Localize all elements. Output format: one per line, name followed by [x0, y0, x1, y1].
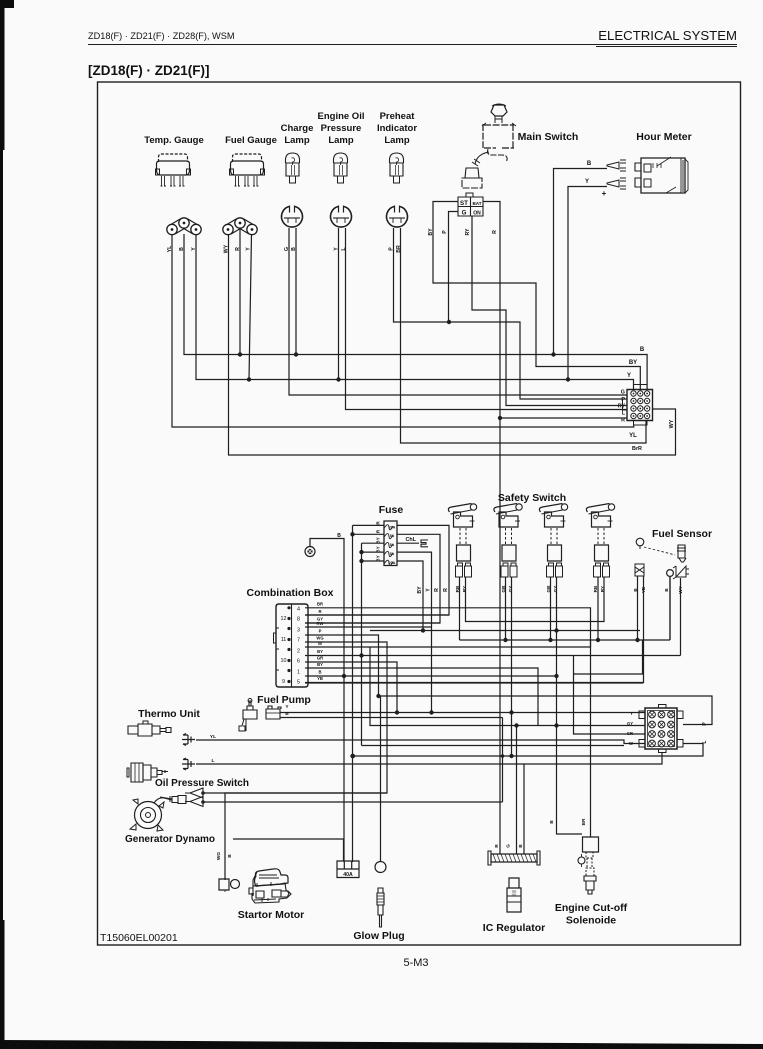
svg-text:WG: WG [216, 852, 222, 861]
svg-text:YL: YL [629, 433, 637, 439]
charge lamp bulb [286, 153, 300, 163]
svg-text:RY: RY [462, 586, 467, 592]
svg-text:GY: GY [553, 586, 558, 593]
svg-text:YL: YL [210, 734, 216, 740]
svg-text:9: 9 [282, 679, 285, 685]
comb wire W [305, 641, 591, 648]
svg-text:Y: Y [426, 588, 432, 592]
svg-text:BY: BY [417, 586, 423, 594]
fuse junction dots [350, 532, 354, 536]
fuse input R wires [353, 525, 385, 862]
svg-text:Fuse: Fuse [379, 504, 404, 516]
hour meter bullet connector Y [607, 178, 626, 189]
svg-text:Fuel Pump: Fuel Pump [257, 694, 311, 706]
comb wire BY2 [305, 668, 538, 726]
svg-text:5: 5 [297, 680, 300, 686]
svg-text:40A: 40A [343, 872, 353, 878]
safety switch 1 [448, 504, 471, 513]
oil fork [182, 758, 195, 770]
svg-text:BrR: BrR [632, 446, 642, 452]
temp gauge elbow connector [170, 219, 198, 235]
wire fuel WY / WY-line [229, 234, 676, 455]
wire oil L IC branch [523, 764, 525, 854]
wire charge G [289, 228, 627, 395]
wire x516 to IC [516, 726, 518, 855]
svg-text:L: L [212, 758, 215, 764]
bus y630 dots [421, 628, 425, 632]
bus y640 B-net [460, 577, 671, 640]
svg-text:B: B [549, 820, 555, 824]
hour meter bullet connector B [607, 160, 626, 171]
scan edge left strip [0, 0, 3, 1049]
svg-text:Fuel Sensor: Fuel Sensor [652, 528, 712, 540]
preheat lamp socket [387, 207, 408, 228]
svg-text:Glow Plug: Glow Plug [353, 930, 404, 942]
bus y839 [233, 839, 344, 861]
preheat lamp bulb [390, 153, 404, 163]
comb wire R [305, 614, 449, 616]
svg-text:R: R [492, 230, 498, 234]
safety sw2 wires [506, 577, 512, 757]
fuse input BY wires [362, 543, 385, 745]
svg-text:Hour Meter: Hour Meter [636, 131, 691, 143]
comb wire GY [305, 622, 440, 624]
safety sw4 left wire [597, 577, 599, 640]
wire P net right [379, 696, 713, 725]
svg-text:20A: 20A [389, 525, 396, 529]
safety sw3 wires [551, 577, 583, 834]
connector C2 12-pin [645, 708, 677, 749]
glow plug wire [380, 696, 382, 861]
svg-text:[ZD18(F) · ZD21(F)]: [ZD18(F) · ZD21(F)] [88, 63, 210, 78]
svg-text:P: P [621, 397, 625, 403]
40A fuse box [337, 861, 359, 878]
B screw terminal [305, 547, 315, 557]
svg-text:Temp. Gauge: Temp. Gauge [144, 135, 203, 146]
combination box [276, 604, 308, 687]
comb wire YB [305, 682, 644, 684]
comb wire BY1 [305, 655, 681, 657]
svg-text:2: 2 [297, 649, 300, 655]
wire main switch BY [433, 202, 640, 390]
svg-text:Solenoide: Solenoide [566, 915, 616, 927]
wire charge B [295, 228, 297, 355]
svg-text:20A: 20A [389, 561, 396, 565]
wire y756 R net [353, 744, 703, 757]
svg-text:Combination Box: Combination Box [247, 587, 334, 599]
svg-text:▒: ▒ [512, 890, 517, 897]
svg-text:Lamp: Lamp [284, 135, 310, 146]
bus y640 dots [503, 638, 507, 642]
hour meter symbol [641, 158, 685, 193]
svg-text:Fuel Gauge: Fuel Gauge [225, 135, 277, 146]
svg-text:Lamp: Lamp [384, 135, 410, 146]
fuse block [384, 521, 397, 566]
svg-text:B: B [640, 347, 645, 353]
diagram frame [98, 82, 741, 945]
svg-text:Y: Y [627, 373, 631, 379]
wire thermo YL long [196, 740, 645, 744]
fuse out c3 CHL [397, 542, 419, 544]
svg-text:3: 3 [297, 628, 300, 634]
svg-text:Y: Y [246, 247, 252, 251]
svg-text:GR: GR [317, 656, 323, 661]
svg-text:WY: WY [669, 419, 675, 428]
glow plug symbol [375, 862, 386, 873]
svg-text:GR: GR [627, 731, 633, 736]
svg-text:YB: YB [317, 676, 323, 681]
svg-text:11: 11 [281, 637, 287, 643]
svg-text:GY: GY [627, 721, 633, 726]
wire B net x344 [310, 539, 344, 863]
svg-text:R: R [318, 609, 321, 614]
svg-text:T15060EL00201: T15060EL00201 [100, 932, 178, 944]
fuel sensor wires [638, 576, 681, 683]
svg-text:WG: WG [316, 636, 323, 641]
svg-text:B: B [227, 854, 233, 858]
svg-text:BY: BY [317, 662, 323, 667]
fuel gauge elbow connector [226, 219, 254, 235]
svg-text:B: B [318, 670, 321, 675]
svg-text:BY: BY [629, 360, 637, 366]
thermo unit symbol [128, 724, 171, 736]
svg-text:R: R [434, 588, 440, 592]
fuse out c5 [397, 561, 423, 631]
svg-text:Charge: Charge [281, 123, 314, 134]
comb wire GR [305, 662, 397, 713]
temp gauge symbol [159, 154, 188, 162]
fuel sensor wire YB line [305, 682, 644, 684]
dots y756 [509, 754, 513, 758]
fuel gauge symbol [233, 154, 262, 162]
svg-text:G: G [462, 210, 467, 217]
svg-text:P: P [442, 230, 448, 234]
svg-text:BR: BR [581, 818, 587, 825]
svg-text:5A: 5A [390, 534, 395, 538]
svg-text:B: B [587, 161, 592, 167]
svg-text:Safety Switch: Safety Switch [498, 492, 566, 504]
fuse out c2 [305, 534, 440, 623]
wire preheat P [394, 228, 628, 399]
wire preheat BR [401, 228, 647, 443]
wire main switch R [483, 202, 500, 855]
svg-text:P: P [319, 629, 322, 634]
IC regulator symbol [491, 854, 537, 862]
fuse out c1 [305, 525, 449, 615]
wire hour meter Y [568, 187, 607, 380]
svg-text:G: G [506, 844, 511, 848]
svg-text:ELECTRICAL SYSTEM: ELECTRICAL SYSTEM [598, 28, 737, 43]
comb wire RW [305, 626, 432, 628]
svg-text:ZD18(F) · ZD21(F) · ZD28(F), W: ZD18(F) · ZD21(F) · ZD28(F), WSM [88, 31, 234, 41]
generator terminal box [219, 879, 229, 890]
svg-text:BAT: BAT [472, 201, 481, 206]
oil lamp socket [331, 207, 352, 228]
fuel sensor fork [673, 566, 689, 579]
svg-text:Startor Motor: Startor Motor [238, 909, 305, 921]
svg-text:+: + [602, 189, 607, 198]
engine cutoff solenoid symbol [583, 837, 599, 852]
comb wire BR [305, 608, 591, 837]
comb wire B [305, 675, 557, 677]
svg-text:Generator Dynamo: Generator Dynamo [125, 834, 215, 845]
generator arrow conn 2 [185, 797, 203, 807]
svg-text:Preheat: Preheat [380, 111, 416, 122]
main switch connector block [458, 197, 483, 216]
svg-text:BR: BR [317, 602, 323, 607]
fuel sensor ring [667, 570, 674, 577]
bus y630 [370, 630, 640, 632]
connector C1 12-pin [627, 390, 653, 421]
oil pressure lamp bulb [334, 153, 348, 163]
thermo fork [182, 734, 195, 746]
safety switch 3 [539, 504, 562, 513]
dot row2 557 [554, 723, 558, 727]
svg-text:GY: GY [508, 586, 513, 593]
svg-text:Engine Cut-off: Engine Cut-off [555, 902, 628, 914]
wire R branch to C1 [500, 417, 627, 419]
svg-text:6: 6 [297, 659, 300, 665]
svg-text:5A: 5A [390, 543, 395, 547]
safety switch 2 [494, 504, 517, 513]
svg-text:BY: BY [317, 649, 323, 654]
starter motor symbol [255, 869, 289, 886]
wire row4 conn2 [362, 745, 625, 747]
safety sw1 wires [460, 577, 605, 640]
svg-text:IC Regulator: IC Regulator [483, 922, 545, 934]
wire oil L long [196, 753, 662, 765]
generator arrow conn 1 [185, 788, 203, 798]
wire hook 642 [574, 641, 643, 675]
generator dynamo symbol [135, 802, 162, 829]
svg-text:Thermo Unit: Thermo Unit [138, 708, 200, 720]
wire fuel Y [249, 234, 252, 380]
svg-text:8: 8 [297, 617, 300, 623]
svg-text:12: 12 [281, 616, 287, 622]
generator wire dots [201, 791, 205, 795]
generator wires [203, 793, 503, 802]
scan edge bottom band [0, 1040, 763, 1049]
svg-text:Indicator: Indicator [377, 123, 417, 134]
svg-text:ON: ON [473, 211, 481, 217]
svg-text:B: B [285, 711, 289, 717]
wire temp Y / Y-line [196, 234, 634, 389]
safety switch 4 [586, 504, 609, 513]
svg-text:R: R [443, 588, 449, 592]
svg-text:ChL: ChL [406, 537, 417, 543]
svg-text:ST: ST [460, 200, 468, 207]
dot R branch [498, 416, 502, 420]
svg-text:7: 7 [297, 638, 300, 644]
wire oil L [346, 228, 628, 410]
svg-text:Pressure: Pressure [321, 123, 362, 134]
fuel pump symbol 1 [243, 701, 257, 719]
svg-text:5-M3: 5-M3 [403, 957, 428, 969]
charge lamp socket [282, 207, 303, 228]
wire hour meter B [554, 169, 608, 355]
junction dots top [238, 352, 242, 356]
CHL cap connector [421, 540, 428, 547]
svg-text:RY: RY [465, 228, 471, 236]
fuse out c4 [397, 552, 432, 711]
fuel pump symbol 2 [266, 706, 281, 719]
fuel pump wires [280, 713, 645, 803]
svg-text:1: 1 [297, 670, 300, 676]
header rule [88, 44, 737, 46]
svg-text:10: 10 [281, 658, 287, 664]
svg-text:5A: 5A [390, 552, 395, 556]
svg-text:Main Switch: Main Switch [518, 131, 579, 143]
oil pressure switch symbol [131, 763, 143, 782]
fuel sensor symbol [636, 538, 644, 546]
svg-text:Y: Y [585, 179, 589, 185]
comb dots [342, 674, 346, 678]
wire main switch RY [472, 216, 627, 406]
wire x370 row2 [370, 647, 645, 726]
wire main switch P [449, 212, 459, 323]
fuel sensor barrel connector [635, 564, 644, 576]
svg-text:Engine Oil: Engine Oil [318, 111, 365, 122]
svg-text:Oil Pressure Switch: Oil Pressure Switch [155, 778, 249, 789]
wire fuel R [239, 228, 241, 355]
wire temp B / B-line [184, 234, 647, 389]
main switch key symbol [491, 105, 507, 116]
svg-text:RY: RY [618, 403, 626, 409]
comb wire WG [225, 642, 387, 880]
svg-text:4: 4 [297, 607, 300, 613]
wire x573 row3 [574, 656, 646, 735]
svg-text:Lamp: Lamp [328, 135, 354, 146]
svg-text:Y: Y [630, 711, 633, 716]
svg-text:RB: RB [593, 585, 598, 592]
svg-text:W: W [629, 741, 633, 746]
wire temp YL [172, 234, 634, 427]
comb wire P [305, 635, 379, 696]
wire oil Y [338, 228, 340, 380]
svg-text:P: P [702, 722, 708, 726]
